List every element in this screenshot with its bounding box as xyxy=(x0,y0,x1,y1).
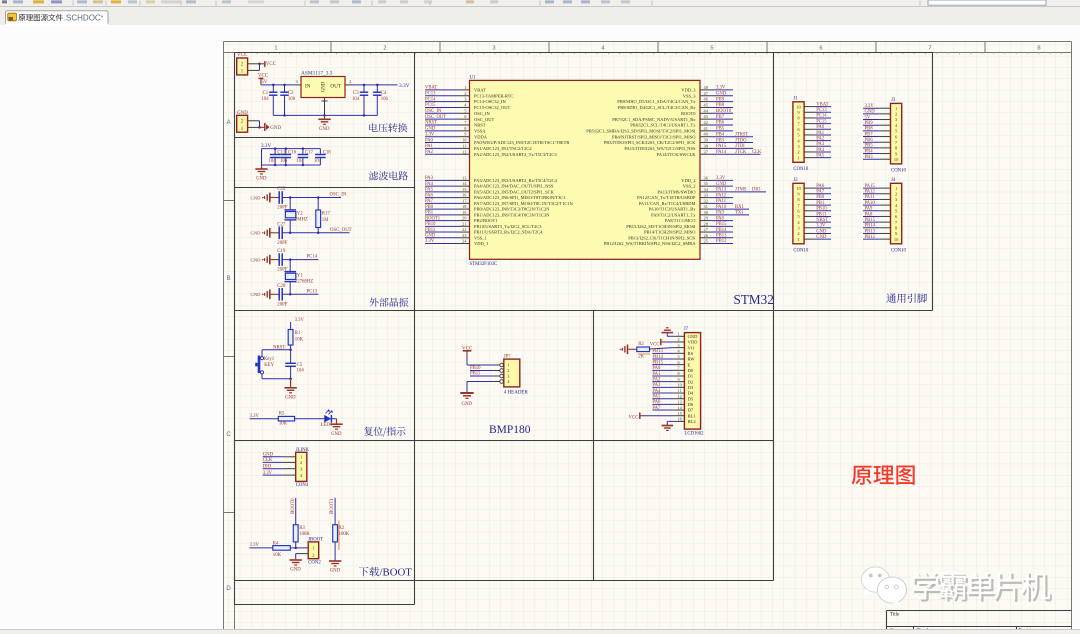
svg-text:PB7/I2C1_SDA/FSMC_NADV/USART1_: PB7/I2C1_SDA/FSMC_NADV/USART1_Rx xyxy=(612,117,696,122)
capacitor C1 104 xyxy=(272,85,274,92)
svg-text:5V: 5V xyxy=(865,115,871,120)
lcd pin 4 RS xyxy=(674,352,685,354)
svg-text:PB0/ADC123_IN8/T3C3/T8C2N/T1C2: PB0/ADC123_IN8/T3C3/T8C2N/T1C2N xyxy=(474,207,550,212)
svg-text:VCC: VCC xyxy=(266,62,277,67)
svg-text:15: 15 xyxy=(678,411,682,416)
svg-text:CON10: CON10 xyxy=(891,168,907,173)
svg-text:PA3: PA3 xyxy=(816,142,825,147)
svg-text:2: 2 xyxy=(797,150,799,155)
svg-text:GND: GND xyxy=(816,229,827,234)
svg-text:PA4: PA4 xyxy=(816,148,825,153)
svg-text:C2: C2 xyxy=(288,91,294,96)
ground (lcd contrast, sideways) xyxy=(629,348,637,350)
svg-text:104: 104 xyxy=(352,97,360,102)
svg-text:GND: GND xyxy=(330,569,341,574)
svg-text:PA12: PA12 xyxy=(716,193,727,198)
lcd pin 13 D6 xyxy=(674,403,685,405)
svg-text:100K: 100K xyxy=(299,532,310,537)
svg-text:PB8: PB8 xyxy=(865,127,874,132)
svg-text:PA11: PA11 xyxy=(865,195,876,200)
svg-text:PB12/I2S2_WS/T1BKIN/SPI2_NSS/I: PB12/I2S2_WS/T1BKIN/SPI2_NSS/I2C2_SMBA xyxy=(604,241,697,246)
svg-text:GND: GND xyxy=(322,81,327,92)
svg-text:D4: D4 xyxy=(688,391,694,396)
svg-text:PB13: PB13 xyxy=(865,229,876,234)
ground rail wire xyxy=(273,114,377,116)
capacitor C5 104 xyxy=(290,350,292,364)
svg-text:C25: C25 xyxy=(277,187,286,192)
svg-text:PA11/CAN_Rx/T1C4/USBDM: PA11/CAN_Rx/T1C4/USBDM xyxy=(639,201,696,206)
svg-text:42: 42 xyxy=(704,120,708,125)
svg-text:BMP180: BMP180 xyxy=(489,424,531,436)
svg-text:106: 106 xyxy=(288,97,296,102)
svg-text:ASM1117_3.3: ASM1117_3.3 xyxy=(301,71,333,77)
svg-text:1: 1 xyxy=(797,237,799,242)
svg-text:PA10: PA10 xyxy=(865,201,876,206)
svg-text:BOOT1: BOOT1 xyxy=(330,498,335,514)
svg-text:VCC: VCC xyxy=(650,343,660,348)
svg-text:VDD_1: VDD_1 xyxy=(474,241,488,246)
svg-text:CLK: CLK xyxy=(752,150,762,155)
svg-text:BOOT0: BOOT0 xyxy=(716,109,732,114)
resistor R1 10K xyxy=(288,330,293,346)
svg-text:PA1: PA1 xyxy=(816,131,825,136)
wire BOOT1 to R2 xyxy=(334,498,336,525)
svg-text:3: 3 xyxy=(678,343,680,348)
svg-text:1: 1 xyxy=(895,186,897,191)
svg-text:10: 10 xyxy=(894,237,899,242)
svg-text:C3: C3 xyxy=(353,91,359,96)
pushbutton Key1 KEY xyxy=(260,357,263,360)
svg-text:4 HEADER: 4 HEADER xyxy=(504,390,529,395)
svg-text:CLK: CLK xyxy=(263,458,273,463)
svg-text:DIO: DIO xyxy=(263,464,272,469)
section title 电压转换 xyxy=(369,123,407,132)
svg-text:PA5: PA5 xyxy=(816,153,825,158)
svg-text:JTDI: JTDI xyxy=(735,144,745,149)
svg-text:NRST: NRST xyxy=(474,123,486,128)
svg-text:GND: GND xyxy=(716,182,727,187)
svg-text:R4: R4 xyxy=(273,541,279,546)
svg-text:1M: 1M xyxy=(322,218,329,223)
svg-text:C27: C27 xyxy=(277,222,286,227)
svg-text:PB9/SDIO_D5/I2C1_SDA/T4C4/CAN_: PB9/SDIO_D5/I2C1_SDA/T4C4/CAN_Tx xyxy=(617,99,696,104)
svg-text:PB4/NJTRST/SPI3_MISO/T3C1/SPI1: PB4/NJTRST/SPI3_MISO/T3C1/SPI1_MISO xyxy=(612,134,696,139)
wire R2 to GND xyxy=(334,542,336,561)
svg-text:PA9/T1C2/USART1_Tx: PA9/T1C2/USART1_Tx xyxy=(651,212,696,217)
ground GND (bmp180) xyxy=(460,392,473,394)
svg-text:C5: C5 xyxy=(297,363,303,368)
svg-text:B: B xyxy=(227,276,231,282)
svg-text:PA15: PA15 xyxy=(716,144,727,149)
svg-text:20PF: 20PF xyxy=(277,302,287,307)
svg-text:12: 12 xyxy=(678,394,682,399)
svg-text:PC14: PC14 xyxy=(816,114,827,119)
svg-text:104: 104 xyxy=(262,97,270,102)
svg-text:10K: 10K xyxy=(273,553,282,558)
svg-text:PB8/SDIO_D4/I2C1_SCL/T4C3/CAN_: PB8/SDIO_D4/I2C1_SCL/T4C3/CAN_Rx xyxy=(618,105,697,110)
schematic sheet background xyxy=(223,41,1072,630)
svg-text:GND: GND xyxy=(251,231,262,236)
svg-text:CON10: CON10 xyxy=(793,248,809,253)
svg-text:PA4/ADC123_IN4/DAC_OUT1/SPI1_N: PA4/ADC123_IN4/DAC_OUT1/SPI1_NSS xyxy=(474,184,554,189)
svg-text:PB14: PB14 xyxy=(865,224,876,229)
svg-text:PC14-OSC32_IN: PC14-OSC32_IN xyxy=(474,99,507,104)
toolbar combobox xyxy=(928,0,1046,5)
resistor R2 100K xyxy=(333,525,338,542)
svg-text:3.3V: 3.3V xyxy=(295,318,305,323)
watermark text 学霸单片机 xyxy=(914,573,1052,601)
svg-text:J1: J1 xyxy=(793,97,798,102)
wire OUT to 3.3V xyxy=(352,84,398,86)
svg-text:31: 31 xyxy=(704,204,708,209)
svg-text:J2: J2 xyxy=(793,178,798,183)
svg-text:R2: R2 xyxy=(638,342,644,347)
svg-text:2: 2 xyxy=(383,45,386,51)
svg-text:PC14: PC14 xyxy=(307,255,318,260)
svg-text:RX1: RX1 xyxy=(735,205,745,210)
svg-text:C4: C4 xyxy=(381,91,387,96)
svg-text:NRST: NRST xyxy=(816,218,828,223)
svg-text:J7: J7 xyxy=(684,327,689,332)
svg-text:2: 2 xyxy=(678,337,680,342)
ground GND (reset) xyxy=(289,377,292,380)
lcd pin15 BL1 VCC xyxy=(640,415,645,417)
svg-text:16: 16 xyxy=(678,417,682,422)
svg-text:IN: IN xyxy=(305,83,311,89)
svg-text:3.3V: 3.3V xyxy=(250,543,260,548)
toolbar strip (clipped icons) xyxy=(0,0,1080,7)
svg-text:VSSA: VSSA xyxy=(474,128,486,133)
svg-text:3.3V: 3.3V xyxy=(716,86,726,91)
svg-text:RW: RW xyxy=(688,357,696,362)
svg-text:PB3: PB3 xyxy=(716,138,725,143)
section title 下载/BOOT xyxy=(359,567,379,577)
lcd pin 6 E xyxy=(674,364,685,366)
svg-text:11: 11 xyxy=(462,143,466,148)
svg-text:104: 104 xyxy=(296,159,304,164)
svg-text:PA0: PA0 xyxy=(816,125,825,130)
svg-text:PC13-TAMPER-RTC: PC13-TAMPER-RTC xyxy=(474,93,513,98)
svg-text:2: 2 xyxy=(507,368,509,373)
svg-text:GND: GND xyxy=(462,402,473,407)
red title 原理图 xyxy=(852,465,915,484)
ground GND (jboot) xyxy=(295,559,297,560)
svg-text:3.3V: 3.3V xyxy=(399,83,410,89)
svg-text:10: 10 xyxy=(894,157,899,162)
svg-text:J3: J3 xyxy=(891,98,896,103)
svg-text:PB0: PB0 xyxy=(816,195,825,200)
svg-text:10K: 10K xyxy=(295,338,304,343)
svg-text:.SCHDOC: .SCHDOC xyxy=(64,13,101,22)
title block xyxy=(887,610,1072,612)
svg-text:PA2: PA2 xyxy=(816,136,825,141)
svg-text:PC13: PC13 xyxy=(816,108,827,113)
ground GND (boot1) xyxy=(329,560,341,562)
crystal Y2 8MHZ xyxy=(289,196,292,199)
svg-text:C18: C18 xyxy=(323,151,332,156)
svg-text:GND: GND xyxy=(251,195,262,200)
svg-text:Y2: Y2 xyxy=(297,212,303,217)
svg-text:C20: C20 xyxy=(277,284,286,289)
svg-text:D3: D3 xyxy=(688,385,694,390)
svg-text:PB1/ADC123_IN9/T3C4/T8C3N/T1C3: PB1/ADC123_IN9/T3C4/T8C3N/T1C3N xyxy=(474,212,550,217)
resistor R2 2K (lcd contrast) xyxy=(650,348,674,349)
status bar xyxy=(0,630,1080,634)
resistor R17 1M xyxy=(317,196,320,199)
svg-text:5: 5 xyxy=(678,354,680,359)
svg-text:41: 41 xyxy=(704,126,708,131)
wire to R5 xyxy=(250,418,279,420)
svg-text:PA5/ADC123_IN5/DAC_OUT2/SPI1_S: PA5/ADC123_IN5/DAC_OUT2/SPI1_SCK xyxy=(474,189,555,194)
capacitor C3 104 xyxy=(363,85,365,92)
svg-text:PB1: PB1 xyxy=(816,201,825,206)
tab bar xyxy=(0,7,1080,25)
svg-text:PA9: PA9 xyxy=(716,211,725,216)
capacitor C4 106 xyxy=(376,85,378,92)
lcd pin 10 D3 xyxy=(674,386,685,388)
svg-text:D1: D1 xyxy=(688,374,694,379)
svg-text:PA11: PA11 xyxy=(716,199,727,204)
svg-text:GND: GND xyxy=(319,127,330,132)
section title 外部晶振 xyxy=(369,298,408,307)
svg-text:OSC_IN: OSC_IN xyxy=(330,193,347,198)
svg-text:GND: GND xyxy=(285,395,296,400)
svg-text:Title: Title xyxy=(890,612,900,617)
svg-text:E: E xyxy=(688,362,691,367)
svg-text:VDD: VDD xyxy=(688,340,698,345)
svg-text:GND: GND xyxy=(716,91,727,96)
svg-text:3: 3 xyxy=(492,45,495,51)
svg-text:D: D xyxy=(226,586,231,592)
svg-text:JTCK: JTCK xyxy=(735,150,747,155)
lcd pin 5 RW xyxy=(674,358,685,360)
svg-text:1: 1 xyxy=(797,155,799,160)
svg-text:PA6: PA6 xyxy=(816,184,825,189)
svg-text:2: 2 xyxy=(895,191,897,196)
svg-text:OSC_OUT: OSC_OUT xyxy=(330,228,352,233)
svg-text:6: 6 xyxy=(678,360,680,365)
svg-text:C17: C17 xyxy=(305,151,314,156)
svg-text:PB13: PB13 xyxy=(716,234,727,239)
wire JBOOT pin2 to GND xyxy=(301,553,308,555)
svg-text:32: 32 xyxy=(704,198,708,203)
svg-text:VCC: VCC xyxy=(629,415,639,420)
sheet border and ruler xyxy=(223,42,225,630)
svg-text:22: 22 xyxy=(462,227,466,232)
svg-text:R3: R3 xyxy=(299,526,305,531)
filter top rail wire xyxy=(262,148,321,150)
lcd pin 12 D5 xyxy=(674,398,685,400)
svg-text:10K: 10K xyxy=(279,422,288,427)
svg-text:GND: GND xyxy=(816,235,827,240)
svg-text:PB11: PB11 xyxy=(816,212,827,217)
svg-text:PA15/JTDI/I2S3_WS/T2C1/SPI3_NS: PA15/JTDI/I2S3_WS/T2C1/SPI3_NSS xyxy=(624,146,696,151)
lcd pin2 VCC xyxy=(661,341,666,343)
svg-text:PA2/ADC123_IN2/USART2_Tx/T5C3/: PA2/ADC123_IN2/USART2_Tx/T5C3/T2C3 xyxy=(474,152,557,157)
wire JP pin4 to GND xyxy=(467,381,494,383)
svg-text:CON10: CON10 xyxy=(891,248,907,253)
svg-text:D5: D5 xyxy=(688,396,694,401)
svg-text:VDD_2: VDD_2 xyxy=(681,178,695,183)
lcd pin 16 BL2 xyxy=(674,420,685,422)
svg-text:VSS_2: VSS_2 xyxy=(683,184,696,189)
svg-text:VO: VO xyxy=(688,345,695,350)
filter bottom rail wire xyxy=(262,164,321,166)
lcd pin 15 BL1 xyxy=(674,415,685,417)
capacitor C17 104 xyxy=(302,149,304,155)
svg-text:CON10: CON10 xyxy=(793,167,809,172)
svg-text:5: 5 xyxy=(710,45,713,51)
svg-text:1: 1 xyxy=(895,106,897,111)
svg-text:2: 2 xyxy=(464,91,466,96)
svg-text:PB9: PB9 xyxy=(865,121,874,126)
wire 3.3V to R4 xyxy=(250,547,273,549)
svg-text:GND: GND xyxy=(251,257,262,262)
svg-text:PA10/T1C3/USART1_Rx: PA10/T1C3/USART1_Rx xyxy=(649,207,697,212)
svg-text:PB14: PB14 xyxy=(716,228,727,233)
svg-text:PA6/ADC123_IN6/SPI1_MISO/T8T1B: PA6/ADC123_IN6/SPI1_MISO/T8T1BKIN/T3C1 xyxy=(474,195,566,200)
svg-text:PA8/T1C1/MCO: PA8/T1C1/MCO xyxy=(665,218,696,223)
capacitor C18 104 xyxy=(319,149,321,155)
svg-text:GND: GND xyxy=(256,177,267,182)
svg-text:BOOT0: BOOT0 xyxy=(681,111,696,116)
lcd pin 9 D2 xyxy=(674,381,685,383)
svg-text:1: 1 xyxy=(678,332,680,337)
svg-text:PB6: PB6 xyxy=(865,138,874,143)
svg-text:3.3V: 3.3V xyxy=(250,414,260,419)
svg-text:R2: R2 xyxy=(339,526,345,531)
wire P2 to GND xyxy=(259,121,261,128)
svg-text:Key1: Key1 xyxy=(264,357,275,362)
svg-text:104: 104 xyxy=(314,159,322,164)
svg-text:PB8: PB8 xyxy=(716,103,725,108)
svg-text:2K: 2K xyxy=(638,355,644,360)
svg-text:PA14/JTCK/SWCLK: PA14/JTCK/SWCLK xyxy=(657,152,697,157)
power port VCC at P1 xyxy=(264,61,266,67)
ground GND below regulator xyxy=(324,115,326,119)
wire 3.3V to R1 xyxy=(290,322,292,330)
svg-text:3.3V: 3.3V xyxy=(716,176,726,181)
svg-text:6: 6 xyxy=(819,45,822,51)
tab document icon xyxy=(8,13,17,21)
LED LED1 xyxy=(324,415,331,423)
svg-text:8MHZ: 8MHZ xyxy=(295,218,308,223)
svg-text:PA13/JTMS/SWDIO: PA13/JTMS/SWDIO xyxy=(657,189,696,194)
svg-text:GND: GND xyxy=(251,292,262,297)
svg-text:20PF: 20PF xyxy=(277,241,287,246)
svg-text:GND: GND xyxy=(688,334,698,339)
svg-text:D0: D0 xyxy=(688,368,694,373)
wire NRST node xyxy=(290,345,292,350)
svg-text:JTMS: JTMS xyxy=(735,188,747,193)
lcd pin 8 D1 xyxy=(674,375,685,377)
tab title text xyxy=(18,14,62,21)
svg-text:PB5: PB5 xyxy=(716,127,725,132)
wire R5 to LED1 xyxy=(295,418,325,420)
wires JLINK nets GND CLK DIO 3.3V xyxy=(283,456,296,458)
svg-text:C16: C16 xyxy=(288,151,297,156)
svg-text:GND: GND xyxy=(865,110,876,115)
svg-text:1: 1 xyxy=(464,85,466,90)
svg-text:PA9: PA9 xyxy=(865,207,874,212)
svg-text:CON2: CON2 xyxy=(308,561,321,566)
svg-text:R17: R17 xyxy=(322,211,331,216)
capacitor C13 104 xyxy=(274,149,276,155)
lcd pin 2 VDD xyxy=(674,341,685,343)
svg-text:CON4: CON4 xyxy=(296,483,309,488)
svg-text:PB10/USART3_Tx/I2C2_SCL/T2C3: PB10/USART3_Tx/I2C2_SCL/T2C3 xyxy=(474,224,542,229)
svg-text:8: 8 xyxy=(1037,45,1040,51)
svg-text:10: 10 xyxy=(796,186,801,191)
svg-text:2: 2 xyxy=(895,112,897,117)
svg-text:C: C xyxy=(226,432,231,438)
svg-text:PA12/CAN_Tx/T1ETR/USBDP: PA12/CAN_Tx/T1ETR/USBDP xyxy=(637,195,696,200)
section title 通用引脚 xyxy=(886,293,927,302)
svg-text:PB3: PB3 xyxy=(865,155,874,160)
svg-text:JTDO: JTDO xyxy=(735,138,747,143)
svg-text:D7: D7 xyxy=(688,408,694,413)
svg-text:PA8: PA8 xyxy=(865,212,874,217)
svg-text:/BOOT: /BOOT xyxy=(380,567,413,579)
capacitor C16 106 xyxy=(285,149,287,155)
svg-text:GND: GND xyxy=(290,568,301,573)
svg-text:D2: D2 xyxy=(688,379,694,384)
document tab 原理图源文件.SCHDOC xyxy=(6,11,109,25)
svg-text:LCD1602: LCD1602 xyxy=(684,432,704,437)
svg-text:VSS_1: VSS_1 xyxy=(474,235,487,240)
svg-text:PA10: PA10 xyxy=(716,205,727,210)
resistor R3 100K xyxy=(293,525,298,542)
svg-text:1: 1 xyxy=(274,45,277,51)
svg-text:C19: C19 xyxy=(277,249,286,254)
svg-text:7: 7 xyxy=(678,366,680,371)
svg-text:D6: D6 xyxy=(688,402,694,407)
svg-text:PA7/ADC123_IN7/SPI1_MOSI/T8C1N: PA7/ADC123_IN7/SPI1_MOSI/T8C1N/T3C2/T1C1… xyxy=(474,201,574,206)
svg-text:VDDA: VDDA xyxy=(474,134,488,139)
wire R3 to junction xyxy=(295,542,297,548)
lcd pin 14 D7 xyxy=(674,409,685,411)
svg-text:VDD_3: VDD_3 xyxy=(681,88,696,93)
svg-text:PB4: PB4 xyxy=(716,132,725,137)
svg-text:R5: R5 xyxy=(279,411,285,416)
lcd pin16 BL2 to ground (bottom) xyxy=(667,420,673,422)
svg-text:PA14: PA14 xyxy=(716,150,727,155)
svg-text:PB12: PB12 xyxy=(865,235,876,240)
sheet grid xyxy=(223,41,1072,630)
svg-text:PB6: PB6 xyxy=(716,121,725,126)
power port GND at P2 xyxy=(260,126,265,128)
svg-text:VSS_3: VSS_3 xyxy=(683,93,697,98)
svg-text:PB10: PB10 xyxy=(816,207,827,212)
svg-text:104: 104 xyxy=(269,159,277,164)
svg-text:TX1: TX1 xyxy=(735,211,744,216)
svg-text:PA3/ADC123_IN3/USART2_Rx/T5C4/: PA3/ADC123_IN3/USART2_Rx/T5C4/T2C4 xyxy=(474,178,558,183)
svg-text:106: 106 xyxy=(280,159,288,164)
svg-text:*: * xyxy=(101,13,104,22)
svg-text:C1: C1 xyxy=(263,91,269,96)
svg-text:VBAT: VBAT xyxy=(816,102,828,107)
svg-text:GND: GND xyxy=(270,126,281,131)
selection mark (orange) xyxy=(338,521,340,550)
svg-text:9: 9 xyxy=(678,377,680,382)
svg-text:R1: R1 xyxy=(295,331,301,336)
ground GND (filter) xyxy=(261,149,263,165)
svg-text:STM32: STM32 xyxy=(734,292,774,307)
svg-text:13: 13 xyxy=(678,400,682,405)
svg-text:PA0/WKUP/ADC123_IN0/T2C1ETR/TS: PA0/WKUP/ADC123_IN0/T2C1ETR/TSC1/T8ETR xyxy=(474,140,569,145)
svg-text:104: 104 xyxy=(297,369,305,374)
wire BOOT0 to R3 xyxy=(295,498,297,525)
